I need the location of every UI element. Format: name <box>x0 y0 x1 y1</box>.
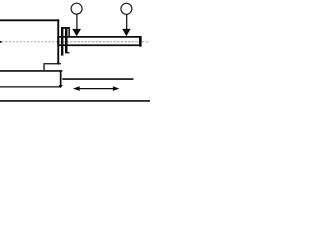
headstock top line <box>0 19 59 21</box>
rod (mandrel) outline <box>57 36 141 46</box>
dial gauge 2 circle <box>121 3 132 14</box>
ground line <box>0 100 150 102</box>
travel arrow right head <box>113 86 120 91</box>
table line <box>62 78 133 80</box>
flange plate 2 <box>65 27 68 53</box>
centerline dash tick at left edge <box>0 41 2 43</box>
travel arrow left head <box>73 86 80 91</box>
rod end cap <box>139 36 142 47</box>
bed end bar (vertical) <box>60 70 62 85</box>
dial gauge 1 plunger arrowhead <box>72 29 81 36</box>
flange plate 1 <box>61 27 63 55</box>
dial gauge 1 stem <box>76 14 77 30</box>
bed bottom line <box>0 86 60 87</box>
wall end down arrowhead <box>57 62 60 65</box>
centerline (dashed axis) <box>2 41 150 43</box>
flange top cap <box>61 27 70 29</box>
bed end down arrowhead <box>59 85 63 88</box>
dial gauge 1 circle <box>71 3 82 14</box>
pedestal <box>43 64 44 70</box>
dial gauge 2 plunger arrowhead <box>122 29 130 36</box>
flange channel foot <box>67 52 69 53</box>
headstock right wall <box>57 19 59 62</box>
bed top line <box>0 70 62 72</box>
flange rear leg (behind rod) <box>68 27 70 37</box>
headstock bottom ledge <box>43 63 61 64</box>
rod centerline dashes inside rod <box>60 41 139 43</box>
travel double arrow shaft <box>78 88 114 89</box>
dial gauge 2 stem <box>126 14 127 30</box>
